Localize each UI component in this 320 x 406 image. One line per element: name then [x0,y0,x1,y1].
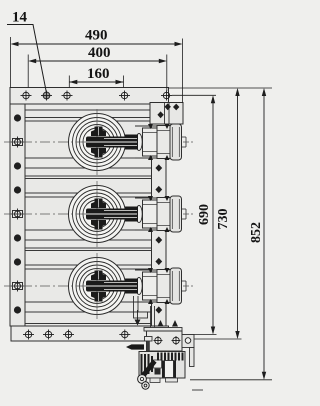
clamp arm phase 3 [86,271,138,302]
top rail bolt 5 [161,91,172,101]
dim 160 line [69,76,123,88]
mechanism main block [139,352,185,379]
top rail bolt 1 [21,91,32,101]
dim 690 vertical [211,95,215,334]
right rail diamond bolts [155,164,162,313]
bottom feet [150,378,160,383]
bushing phase 3 [135,268,194,304]
left gear stripes [141,354,154,374]
right gear stripes [157,353,184,361]
bushing phase 2 [135,196,194,232]
housing bolt 1 [154,336,163,345]
dim 400 line [28,55,167,92]
top rail [10,88,169,105]
dim 730 vertical [235,88,239,339]
left column hinge bolt A [11,137,24,148]
middle detail box [154,360,162,368]
phantom dash bottom right [192,389,203,391]
top rail bolt 2 (item 14) [41,91,52,101]
center lines phase 1 [4,109,150,175]
left column hinge bolt C [11,281,24,292]
lever [140,360,157,380]
left pointer arm [126,344,144,349]
svg-text:160: 160 [87,66,110,82]
phase 3 insulator disc [69,258,126,315]
right extension line top [169,87,273,89]
center lines phase 3 [4,253,150,319]
tab bolt [185,338,191,344]
svg-text:730: 730 [216,209,231,230]
housing bolt 2 [172,336,181,345]
phase 1 insulator disc [69,114,126,171]
clamp arm phase 2 [86,199,138,230]
lever roller 1 [138,375,147,384]
mechanism housing [147,331,183,351]
right narrow plate [190,348,195,367]
left column [10,104,25,326]
cylinder [165,361,174,378]
svg-text:852: 852 [249,222,264,243]
phase 2 insulator disc [69,186,126,243]
lever roller 2 [142,382,149,389]
left column plain bolts [14,114,21,313]
right tab [182,335,194,348]
bottom reference line 852 [190,379,272,381]
bushing phase 1 [135,124,194,160]
body horizontal seam lines [25,110,152,324]
bottom reference line 730 [186,338,242,340]
svg-text:400: 400 [88,45,111,61]
svg-text:14: 14 [12,10,28,26]
svg-text:490: 490 [85,28,108,44]
main body panel [10,104,152,326]
dim 852 vertical [262,88,266,380]
top rail bolt 4 [119,91,130,101]
bracket diamond bolts [157,103,179,118]
bottom rail [11,326,169,341]
linkage rods above mechanism [134,296,155,328]
bottom rail bolts [23,330,130,340]
extension from bolt line [172,94,216,96]
leader line for 14 [7,25,47,94]
down arrow marker [135,310,141,326]
right column rail [152,104,167,326]
linkage box [134,312,148,318]
bottom reference line 690 [175,334,217,336]
dim 490 line [11,37,183,103]
mechanism top plate [144,328,182,332]
svg-text:690: 690 [197,204,212,225]
small bolt with stem [145,337,153,353]
center lines phase 2 [4,181,150,247]
top right bracket [150,103,183,125]
clamp arm phase 1 [86,127,138,158]
left column hinge bolt B [11,209,24,220]
top rail bolt 3 [62,91,73,101]
up arrow markers on plate [158,320,179,327]
